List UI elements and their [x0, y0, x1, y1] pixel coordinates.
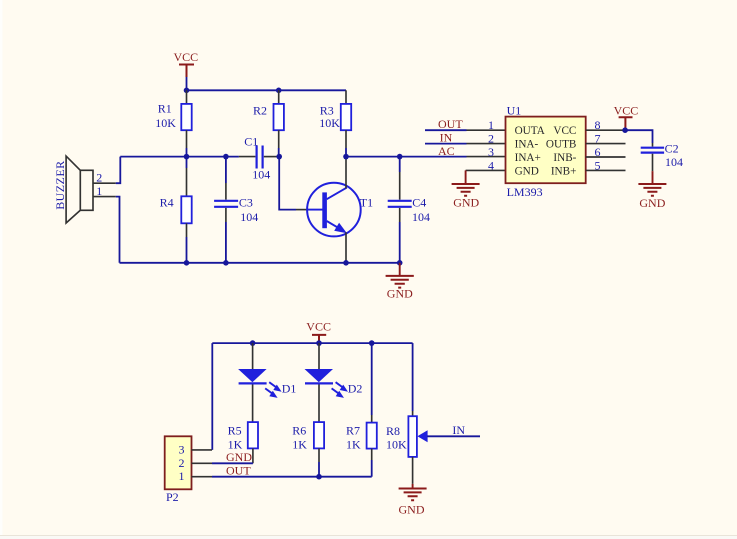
resistor R7 [346, 343, 377, 460]
resistor R2 [253, 90, 284, 148]
wire R2 bottom to base node [278, 148, 280, 157]
svg-text:VCC: VCC [174, 50, 199, 64]
svg-text:3: 3 [179, 442, 185, 456]
wire C4 bottom to bottom rail [399, 222, 401, 263]
wire rail to P2 pin3 drop [211, 343, 213, 450]
wire top rail [187, 89, 347, 91]
svg-text:1: 1 [179, 469, 185, 483]
node C4 top junction [397, 154, 403, 160]
node R4 bottom junction [184, 260, 190, 266]
svg-text:3: 3 [488, 145, 494, 159]
node VCC/R1 junction [184, 88, 190, 94]
svg-text:5: 5 [595, 158, 601, 172]
svg-text:104: 104 [240, 210, 258, 224]
wire R6 bottom to out rail [318, 462, 320, 477]
resistor R5 [228, 422, 258, 463]
node R2 top junction [276, 88, 282, 94]
node R1/R4 junction [184, 154, 190, 160]
node C4/GND junction [397, 260, 403, 266]
svg-text:C2: C2 [665, 142, 679, 156]
svg-text:INA-: INA- [515, 139, 539, 151]
transistor T1 [296, 157, 373, 263]
net label OUT wire [425, 129, 467, 131]
wire buzzer pin1 down to bottom rail [116, 197, 120, 263]
node C3 bottom junction [223, 260, 229, 266]
svg-text:R7: R7 [346, 423, 360, 437]
svg-text:R6: R6 [292, 423, 306, 437]
svg-text:1: 1 [96, 184, 102, 198]
wire VCC stem to top rail [186, 77, 188, 90]
net label IN wire [425, 143, 467, 145]
wire bottom circuit top rail [212, 342, 412, 344]
svg-text:8: 8 [595, 118, 601, 132]
svg-text:IN: IN [452, 423, 465, 437]
svg-text:OUT: OUT [438, 117, 463, 131]
svg-text:1K: 1K [346, 437, 361, 451]
svg-text:R4: R4 [160, 195, 174, 209]
resistor R3 [319, 90, 351, 148]
wire R5 bottom to P2 pin2 [212, 462, 253, 464]
svg-text:OUT: OUT [226, 464, 251, 478]
svg-text:7: 7 [595, 132, 601, 146]
svg-text:R5: R5 [228, 423, 242, 437]
wire bottom rail [120, 262, 400, 264]
node D1 top junction [250, 340, 256, 346]
resistor R1 [155, 90, 192, 148]
svg-text:P2: P2 [166, 490, 179, 504]
wire C3 bottom to bottom rail [225, 222, 227, 263]
node pin8/VCC junction [622, 127, 628, 133]
svg-text:GND: GND [515, 165, 539, 177]
svg-text:R1: R1 [158, 102, 172, 116]
svg-text:T1: T1 [360, 196, 373, 210]
svg-text:VCC: VCC [306, 320, 331, 334]
svg-text:2: 2 [96, 170, 102, 184]
wire R4 bottom to bottom rail [186, 237, 188, 263]
svg-text:LM393: LM393 [507, 185, 543, 199]
svg-text:OUTA: OUTA [515, 125, 545, 137]
svg-text:GND: GND [639, 196, 665, 210]
svg-text:10K: 10K [386, 438, 407, 452]
svg-text:R8: R8 [386, 424, 400, 438]
svg-text:U1: U1 [507, 103, 522, 117]
node C1/R2/base junction [276, 154, 282, 160]
ground GND (U1 pin4) [452, 170, 480, 209]
svg-text:6: 6 [595, 145, 601, 159]
svg-text:IN: IN [440, 131, 453, 145]
wire pin8 node to C2 [625, 130, 652, 143]
node collector junction [343, 154, 349, 160]
svg-text:INA+: INA+ [515, 152, 541, 164]
buzzer LS1 [53, 156, 116, 223]
node emitter junction [343, 260, 349, 266]
svg-text:VCC: VCC [614, 104, 639, 118]
svg-text:R2: R2 [253, 104, 267, 118]
wire R7 bottom to out rail [371, 460, 373, 477]
svg-text:104: 104 [412, 210, 430, 224]
capacitor C4 [388, 157, 430, 224]
LED D2 [305, 343, 363, 422]
wire R8 wiper IN [427, 435, 480, 437]
svg-text:2: 2 [488, 132, 494, 146]
wire base node down and to transistor [279, 157, 296, 210]
resistor R6 [292, 422, 324, 462]
connector P2 [165, 436, 212, 504]
svg-text:OUTB: OUTB [546, 139, 576, 151]
svg-text:BUZZER: BUZZER [53, 160, 67, 209]
svg-text:104: 104 [252, 167, 270, 181]
svg-text:GND: GND [399, 503, 425, 517]
power VCC (U1 pin8) [614, 104, 639, 131]
op-amp U1 LM393 [466, 103, 626, 198]
svg-text:D2: D2 [348, 382, 363, 396]
svg-text:10K: 10K [319, 116, 340, 130]
svg-text:C1: C1 [244, 134, 258, 148]
node C3 top junction [223, 154, 229, 160]
svg-text:1K: 1K [292, 437, 307, 451]
svg-text:4: 4 [488, 158, 494, 172]
svg-text:10K: 10K [155, 116, 176, 130]
svg-text:104: 104 [665, 155, 683, 169]
capacitor C3 [214, 157, 258, 224]
svg-text:C4: C4 [412, 195, 426, 209]
svg-text:GND: GND [387, 286, 413, 300]
power VCC (bottom circuit) [306, 320, 331, 344]
ground GND (R8) [399, 484, 427, 517]
svg-text:AC: AC [438, 144, 455, 158]
node VCC/D2 junction [316, 340, 322, 346]
wire buzzer pin2 up to mid rail [116, 157, 121, 184]
svg-text:INB+: INB+ [551, 165, 577, 177]
node R6 bottom junction [316, 474, 322, 480]
wire R1 bottom to mid rail [186, 148, 188, 157]
ground GND (top circuit) [386, 263, 414, 301]
wire collector node to AC rail [346, 156, 467, 158]
wire mid rail [120, 156, 239, 158]
capacitor C1 [239, 134, 279, 181]
svg-text:GND: GND [226, 450, 252, 464]
svg-text:INB-: INB- [553, 152, 576, 164]
svg-text:D1: D1 [282, 382, 297, 396]
svg-text:2: 2 [179, 456, 185, 470]
svg-text:1: 1 [488, 118, 494, 132]
capacitor C2 [641, 142, 683, 172]
ground GND (C2) [638, 171, 666, 210]
LED D1 [238, 343, 296, 422]
wire P2 pin1 out rail [212, 476, 372, 478]
wire R3 bottom to collector node [345, 148, 347, 157]
resistor R4 [160, 157, 192, 237]
svg-text:C3: C3 [239, 195, 253, 209]
potentiometer R8 [386, 343, 428, 484]
node R7 top junction [369, 340, 375, 346]
power VCC (top circuit) [174, 50, 199, 77]
svg-text:VCC: VCC [553, 125, 576, 137]
svg-text:GND: GND [453, 196, 479, 210]
